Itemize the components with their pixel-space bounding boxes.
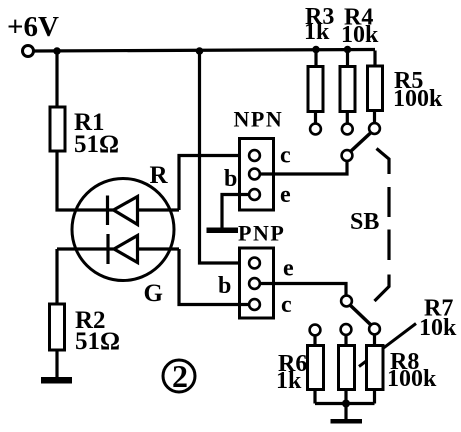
socket PNP pin b bbox=[249, 278, 260, 289]
svg-text:1k: 1k bbox=[304, 19, 330, 45]
figure number 2 circle bbox=[163, 360, 195, 392]
svg-text:10k: 10k bbox=[419, 315, 457, 341]
terminal circle R3 bbox=[310, 124, 321, 135]
socket NPN pin e bbox=[249, 189, 260, 200]
resistor R8 bbox=[367, 346, 384, 390]
bus wire R6 R7 R8 bbox=[315, 402, 375, 405]
junction dot B (PNP e feed) bbox=[196, 47, 204, 55]
terminal circle R6 bbox=[310, 325, 321, 336]
junction dot bus bbox=[342, 400, 350, 408]
wire R4 to terminal bbox=[346, 112, 349, 124]
svg-text:b: b bbox=[224, 166, 237, 192]
socket PNP pin e bbox=[249, 258, 260, 269]
ground (below R2) bbox=[41, 377, 72, 384]
wire LED G to R2 bbox=[57, 249, 107, 304]
terminal circle R5 bbox=[369, 123, 380, 134]
svg-text:1k: 1k bbox=[276, 368, 302, 394]
wire LED G to PNP c bbox=[179, 249, 249, 305]
junction dot A (R1 tap) bbox=[53, 47, 61, 55]
switch SB lower pole circle bbox=[341, 296, 352, 307]
socket NPN outline bbox=[240, 139, 274, 211]
wire R1 to LED R anode bbox=[57, 151, 106, 210]
+6V terminal bbox=[23, 46, 34, 57]
svg-text:e: e bbox=[280, 182, 291, 208]
ground (NPN e) bbox=[207, 228, 239, 234]
resistor R4 bbox=[340, 67, 355, 112]
wire PNP b to SB lower pole bbox=[260, 284, 346, 296]
wire R7 terminal to body bbox=[344, 335, 347, 346]
wire bus to ground bbox=[344, 404, 347, 420]
switch SB lower arm bbox=[350, 305, 372, 326]
wire LED G right lead bbox=[138, 247, 180, 250]
wire NPN e to ground bbox=[222, 195, 249, 228]
resistor R7 bbox=[339, 346, 355, 390]
switch SB upper arm bbox=[351, 133, 372, 152]
SB dashed link line bbox=[375, 149, 390, 302]
socket PNP pin c bbox=[249, 299, 260, 310]
terminal circle R7 bbox=[341, 324, 352, 335]
ground (bottom) bbox=[331, 419, 363, 424]
junction dot D (R4 tap) bbox=[344, 46, 352, 54]
svg-text:+6V: +6V bbox=[7, 11, 59, 43]
svg-text:c: c bbox=[281, 292, 292, 318]
wire rail to R4 bbox=[346, 51, 349, 67]
svg-text:PNP: PNP bbox=[238, 221, 285, 246]
svg-text:G: G bbox=[144, 280, 163, 307]
wire R7 to bus bbox=[344, 390, 347, 404]
wire R6 to bus bbox=[313, 390, 316, 404]
svg-text:51Ω: 51Ω bbox=[74, 131, 119, 158]
wire NPN b to SB upper pole bbox=[260, 161, 347, 174]
svg-text:100k: 100k bbox=[387, 366, 437, 392]
wire R8 to bus bbox=[373, 390, 376, 404]
top rail wire bbox=[34, 50, 376, 52]
svg-text:R: R bbox=[150, 162, 169, 189]
socket PNP outline bbox=[240, 248, 274, 318]
wire R8 terminal to body bbox=[373, 335, 376, 346]
svg-text:100k: 100k bbox=[393, 86, 443, 112]
socket NPN pin c bbox=[249, 150, 260, 161]
wire LED R right lead bbox=[138, 208, 180, 211]
wire R5 to terminal bbox=[373, 111, 376, 124]
wire rail down to PNP e bbox=[200, 51, 250, 263]
wire rail to R1 bbox=[55, 51, 58, 107]
resistor R3 bbox=[308, 67, 323, 112]
svg-text:NPN: NPN bbox=[234, 107, 284, 132]
wire R2 to ground bbox=[55, 350, 58, 377]
svg-text:c: c bbox=[280, 143, 291, 169]
LED R diode triangle bbox=[108, 197, 138, 225]
svg-text:b: b bbox=[218, 273, 231, 299]
wire rail to R3 bbox=[314, 51, 317, 67]
terminal circle R4 bbox=[342, 124, 353, 135]
switch SB upper pole circle bbox=[342, 150, 353, 161]
resistor R6 bbox=[308, 346, 324, 390]
resistor R5 bbox=[368, 66, 383, 111]
dual LED package circle bbox=[72, 179, 174, 281]
resistor R2 bbox=[50, 304, 65, 350]
svg-text:2: 2 bbox=[172, 358, 188, 394]
LED R diode cathode bar bbox=[106, 196, 109, 226]
LED G diode triangle bbox=[108, 236, 138, 263]
svg-text:SB: SB bbox=[350, 209, 379, 235]
junction dot C (R3 tap) bbox=[312, 46, 320, 54]
svg-text:10k: 10k bbox=[341, 22, 379, 48]
svg-text:51Ω: 51Ω bbox=[75, 328, 120, 355]
wire rail to R5 bbox=[373, 51, 376, 67]
terminal circle R8 bbox=[369, 324, 380, 335]
svg-text:e: e bbox=[283, 256, 294, 282]
wire R6 terminal to body bbox=[313, 336, 316, 346]
resistor R1 bbox=[50, 107, 65, 151]
R7 pointer line bbox=[359, 324, 416, 367]
LED G diode cathode bar bbox=[106, 234, 109, 264]
wire R3 to terminal bbox=[314, 112, 317, 124]
wire LED R to NPN c bbox=[179, 156, 249, 211]
socket NPN pin b bbox=[249, 169, 260, 180]
